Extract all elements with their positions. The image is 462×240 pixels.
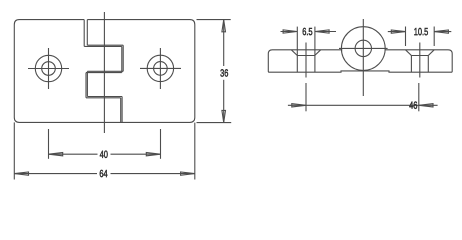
hinge pin center line <box>103 12 105 133</box>
countersink C1 left slant <box>291 50 297 56</box>
side view bar outline <box>268 50 452 72</box>
dim 64 left extension line <box>13 122 15 179</box>
joint slot left wall top <box>83 20 85 47</box>
hole H1 crosshair horizontal <box>28 68 69 70</box>
dim 10.5 arrow pointing right <box>391 30 405 33</box>
hole C1 right wall and dim extension <box>314 27 316 73</box>
dim text 64 <box>100 170 103 177</box>
hole H2 outer circle <box>147 55 173 81</box>
dim 46 left extension line <box>305 83 307 111</box>
dim 40 arrow right <box>146 153 160 156</box>
dim 6.5 arrow pointing right <box>283 30 297 33</box>
dim 64 line right segment <box>111 173 195 175</box>
dim 10.5 right extension line <box>433 27 435 47</box>
dim text 10.5 <box>414 28 417 35</box>
dim text 36 <box>220 69 224 76</box>
dim 46 right extension line <box>418 83 420 111</box>
joint vertical right b <box>122 45 124 71</box>
countersink C2 left slant <box>406 50 412 56</box>
joint horizontal upper 2 <box>87 70 123 72</box>
dim 64 right extension line <box>194 123 196 180</box>
dim 64 arrow left <box>15 172 29 175</box>
dim 40 left extension line <box>48 129 50 159</box>
joint slot right wall top <box>86 20 88 46</box>
dim 36 arrow up <box>222 20 226 32</box>
joint horizontal lower 3 <box>86 97 121 99</box>
hole H2 crosshair horizontal <box>140 67 181 69</box>
dim 36 bottom extension line <box>197 122 232 124</box>
knuckle crosshair horizontal <box>339 47 388 49</box>
countersink C2 bottom line <box>411 55 428 57</box>
front view body outline <box>14 20 195 123</box>
dim 6.5 line left segment <box>281 31 298 33</box>
hole H1 crosshair vertical <box>48 48 50 89</box>
hole C1 left wall and dim extension <box>296 27 298 73</box>
joint horizontal upper 1 <box>87 44 123 46</box>
dim text 40 <box>100 151 104 158</box>
countersink C1 right slant <box>315 50 321 56</box>
pin hole circle <box>355 40 371 56</box>
joint vertical left a <box>85 73 87 98</box>
hole H2 inner circle <box>154 62 168 76</box>
hole C2 center line <box>419 43 421 78</box>
dim 40 line right segment <box>111 153 161 155</box>
dim 10.5 left extension line <box>405 27 407 47</box>
dim text 6.5 <box>303 28 306 35</box>
dim 10.5 arrow pointing left <box>434 30 448 33</box>
joint vertical right a <box>121 46 123 72</box>
dim 46 line left outside segment <box>288 104 306 106</box>
knuckle center line vertical <box>362 19 364 96</box>
dim 64 line left segment <box>14 173 97 175</box>
hole C1 center line <box>305 43 307 78</box>
countersink C2 right slant <box>428 50 434 56</box>
dim 10.5 line right segment <box>434 31 451 33</box>
dim 46 arrow pointing left <box>419 104 433 107</box>
dim 40 right extension line <box>160 129 162 159</box>
joint vertical bottom b <box>121 97 123 123</box>
dim 10.5 line left segment <box>388 31 406 33</box>
knuckle outer circle <box>341 27 385 71</box>
hole H1 inner circle <box>42 62 56 76</box>
countersink C1 bottom line <box>297 55 314 57</box>
joint horizontal lower 1 <box>84 45 122 47</box>
hole C2 left wall <box>410 56 412 73</box>
dim text 46 <box>409 102 413 109</box>
hole H2 crosshair vertical <box>159 48 161 89</box>
joint vertical left b <box>86 71 88 96</box>
dim 36 top extension line <box>197 19 231 21</box>
joint horizontal lower 2 <box>86 72 122 74</box>
dim 46 line right outside segment <box>419 104 438 106</box>
joint horizontal upper 3 <box>87 96 122 98</box>
hole H1 outer circle <box>35 55 61 81</box>
dim 40 line left segment <box>49 153 98 155</box>
dim 46 line main segment <box>306 104 419 106</box>
dim 46 arrow pointing right <box>292 104 306 107</box>
dim 36 line upper segment <box>223 20 225 66</box>
dim 6.5 line right segment <box>315 31 336 33</box>
dim 36 line lower segment <box>223 80 225 123</box>
dim 40 arrow left <box>49 153 63 156</box>
dim 6.5 arrow pointing left <box>315 30 329 33</box>
hole C2 right wall <box>427 56 429 73</box>
dim 36 arrow down <box>222 110 226 122</box>
joint vertical bottom a <box>120 98 122 123</box>
dim 64 arrow right <box>181 172 195 175</box>
